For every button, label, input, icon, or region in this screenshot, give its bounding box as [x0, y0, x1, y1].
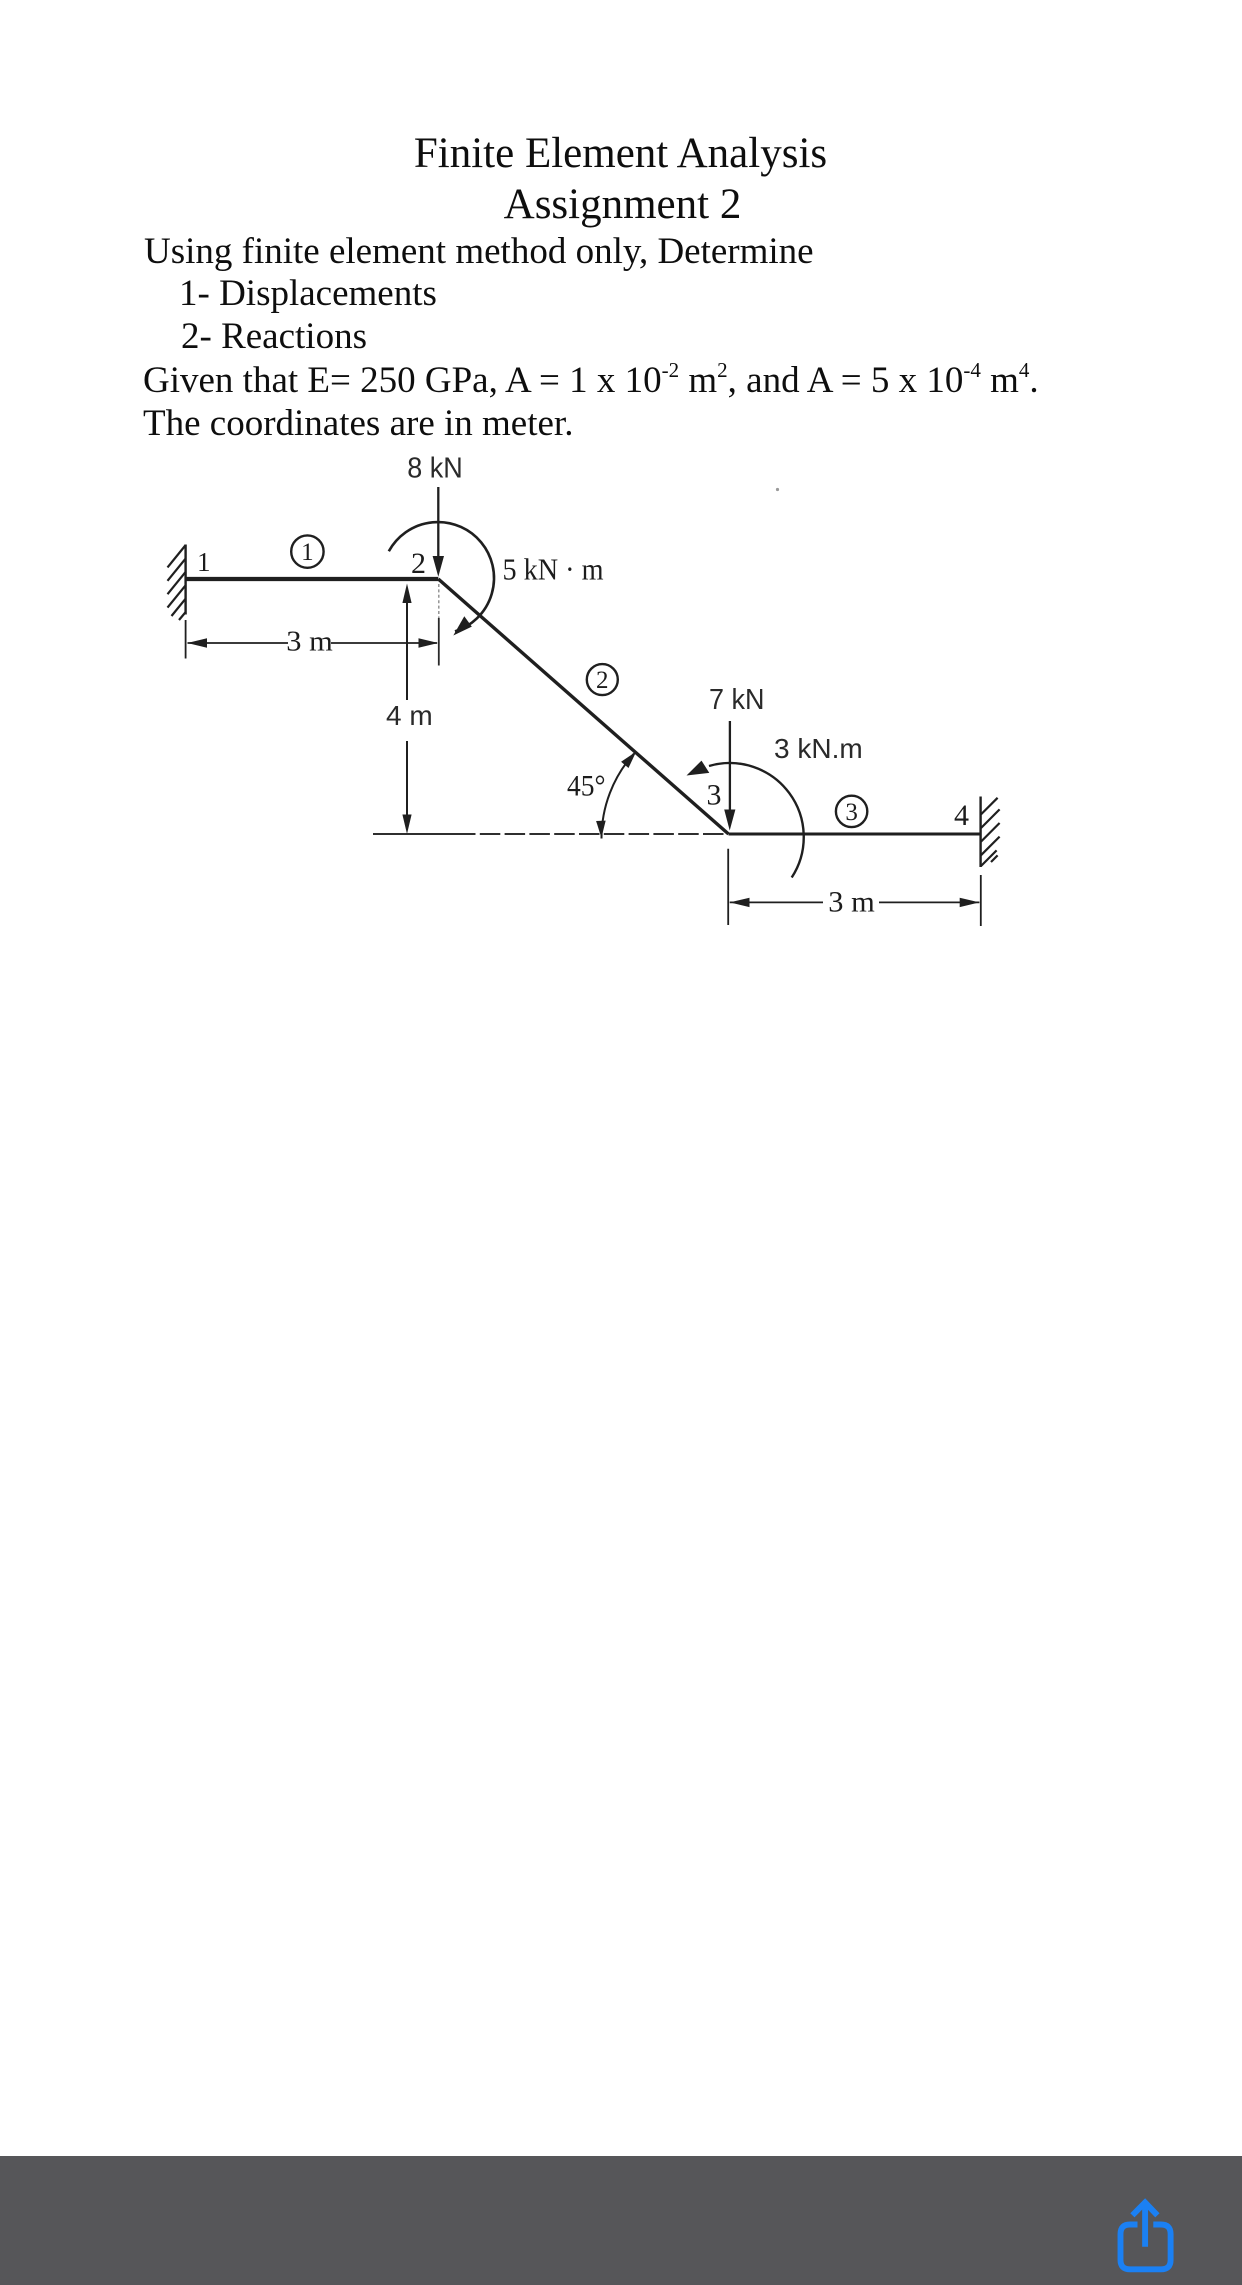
bottom toolbar	[0, 2156, 1242, 2285]
svg-text:3 m: 3 m	[286, 625, 333, 657]
element circle 2	[587, 664, 618, 695]
svg-text:3 m: 3 m	[828, 886, 875, 919]
dimension 3 m (bottom)	[728, 849, 981, 926]
svg-text:2: 2	[411, 547, 426, 580]
svg-text:3: 3	[845, 799, 858, 826]
svg-text:7 kN: 7 kN	[709, 684, 765, 716]
ground reference line	[373, 833, 728, 835]
svg-text:4 m: 4 m	[386, 700, 433, 731]
dimension 4 m (vertical)	[402, 584, 411, 835]
svg-text:1: 1	[197, 547, 211, 577]
45 degree angle arc	[596, 752, 636, 839]
svg-text:45°: 45°	[567, 770, 606, 803]
svg-text:1: 1	[301, 539, 314, 566]
member 3 (node3-node4)	[729, 833, 981, 836]
document text block	[0, 132, 1242, 175]
svg-text:2: 2	[596, 667, 609, 694]
member 2 (diagonal node2-node3)	[438, 579, 728, 834]
fixed support wall at node 1	[168, 545, 186, 621]
noise dot	[776, 488, 779, 491]
element circle 3	[836, 796, 867, 827]
svg-text:8 kN: 8 kN	[407, 453, 463, 485]
svg-text:3: 3	[707, 779, 722, 812]
svg-text:3 kN.m: 3 kN.m	[774, 733, 863, 764]
moment 5 kN·m arc at node 2	[389, 522, 494, 635]
share icon	[1100, 2190, 1200, 2285]
dimension 3 m (top left)	[186, 620, 439, 659]
element circle 1	[291, 535, 323, 567]
extension line below node 2	[438, 584, 440, 666]
svg-text:4: 4	[954, 799, 969, 832]
member 1 (beam node1-node2)	[186, 577, 439, 581]
force 7 kN arrow	[724, 721, 735, 831]
svg-text:5 kN · m: 5 kN · m	[503, 552, 604, 587]
moment 3 kN.m arc at node 3	[687, 761, 804, 878]
force 8 kN arrow	[433, 487, 444, 577]
fixed support wall at node 4	[981, 797, 1000, 868]
